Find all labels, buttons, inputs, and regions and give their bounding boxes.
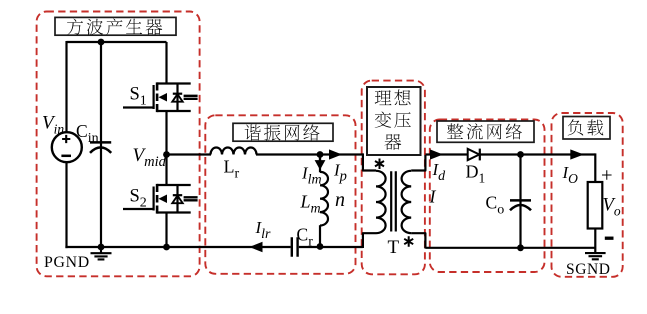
dashed region: rectifier network block — [430, 120, 545, 273]
wire secondary to D1 — [425, 153, 467, 155]
wire Lm bottom — [319, 225, 321, 247]
node Vmid junction — [163, 151, 170, 158]
wire Lr to transformer — [256, 153, 363, 155]
wire Vmid to Lr — [167, 153, 212, 155]
capacitor Cin — [90, 142, 111, 153]
transformer primary winding — [376, 171, 386, 233]
transformer secondary winding — [402, 171, 412, 233]
node Lm top junction — [317, 151, 324, 158]
dashed region: square-wave generator block — [37, 12, 200, 277]
polarity star primary — [375, 159, 384, 170]
svg-text:PGND: PGND — [44, 254, 90, 271]
wire bottom rail (PGND rail) — [65, 246, 290, 248]
diode D1 — [468, 149, 480, 161]
label minus — [605, 237, 614, 240]
voltage source Vin — [52, 132, 82, 162]
node top junction — [98, 39, 105, 46]
ground SGND symbol — [585, 253, 606, 259]
node Co top junction — [517, 151, 524, 158]
capacitor Co — [510, 200, 531, 210]
wire S1 drain — [165, 42, 167, 84]
node half-bridge bottom junction — [163, 244, 170, 251]
node Cin bottom junction — [98, 244, 105, 251]
wire S2 source — [165, 213, 167, 248]
wire Vin left branch top — [65, 41, 67, 133]
wire Lm top — [319, 155, 321, 173]
label box 方波产生器 — [55, 17, 176, 35]
wire bottom rail secondary — [425, 247, 595, 249]
svg-text:I: I — [429, 187, 437, 207]
transformer core — [391, 171, 396, 231]
svg-text:n: n — [335, 189, 345, 211]
capacitor Cr — [292, 237, 298, 256]
wire secondary bottom elbow — [411, 233, 425, 248]
inductor Lm — [320, 172, 328, 226]
wire resistor bottom — [594, 229, 596, 253]
wire S2 drain — [165, 155, 167, 186]
arrow current Io (right) — [570, 149, 584, 159]
label box 谐振网络 — [233, 123, 333, 141]
label box 负载 — [563, 117, 610, 140]
inductor Lr — [211, 148, 257, 155]
ground PGND symbol — [91, 247, 112, 259]
node Cr junction — [317, 243, 324, 250]
transistor S1 (MOSFET with body diode and output capacitance) — [123, 82, 198, 112]
wire load top elbow — [594, 153, 596, 182]
arrow current Ip (right) — [329, 149, 342, 159]
svg-text:SGND: SGND — [566, 261, 611, 278]
svg-text:+: + — [601, 165, 613, 187]
wire Cr to Lm node — [299, 246, 363, 248]
dashed region: ideal transformer block — [362, 81, 425, 275]
dashed region: resonant network block — [205, 115, 355, 273]
arrow current Ilm (down) — [319, 156, 321, 163]
label box 整流网络 — [437, 121, 534, 142]
wire secondary top elbow — [411, 155, 425, 171]
wire Cin branch — [100, 42, 102, 247]
wire primary top elbow — [363, 153, 376, 170]
wire S1 source to Vmid — [165, 111, 167, 155]
label box 理想变压器 — [367, 87, 421, 155]
dashed region: load block — [552, 113, 623, 277]
wire Vin left branch bottom — [65, 162, 67, 248]
wire top rail — [67, 41, 167, 43]
node Co bottom junction — [517, 244, 524, 251]
transistor S2 (MOSFET with body diode and output capacitance) — [123, 184, 198, 214]
wire D1 to load — [480, 153, 596, 155]
arrow current Id (right) — [430, 149, 443, 159]
wire Co branch — [519, 155, 521, 249]
polarity star secondary (next to T) — [404, 236, 413, 247]
arrow current Ilr (left) — [249, 242, 262, 252]
resistor Vo (load) — [588, 182, 603, 229]
wire primary bottom elbow — [363, 233, 376, 248]
svg-text:T: T — [388, 237, 400, 258]
